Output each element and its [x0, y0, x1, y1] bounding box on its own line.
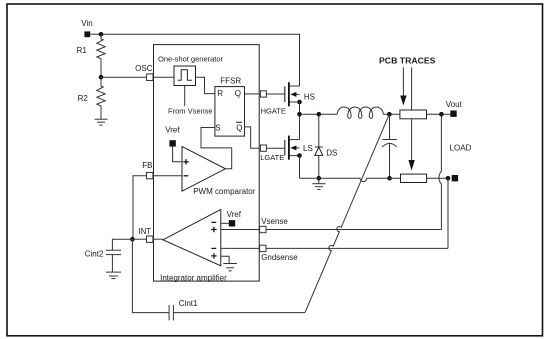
op-amp integrator amplifier [163, 209, 221, 265]
junction Cout/ground rail [387, 176, 392, 181]
wire HS source to LS drain [299, 102, 301, 140]
pin Gndsense [260, 245, 266, 251]
wire INT to Cint2 [112, 239, 132, 250]
wire HGATE to HS gate [266, 93, 284, 95]
wire HS drain to Vin rail [299, 34, 302, 86]
ground integrator [223, 264, 237, 271]
svg-text:R2: R2 [78, 94, 89, 103]
minus sign integrator bottom [211, 247, 216, 249]
capacitor Cout [382, 114, 397, 178]
svg-text:R: R [217, 89, 223, 98]
wire OSC to one-shot [153, 76, 174, 78]
ground power rail [312, 178, 325, 189]
pin OSC [147, 74, 153, 81]
ground Cint2 [106, 272, 121, 279]
svg-text:PCB TRACES: PCB TRACES [379, 55, 436, 65]
plus sign integrator bottom [211, 253, 216, 258]
transistor Q LS [285, 136, 300, 160]
junction LS source/body [297, 153, 302, 158]
wire OSC [101, 76, 146, 78]
diode DS [315, 114, 323, 178]
svg-text:Q: Q [236, 123, 242, 132]
junction Vin/R1 [99, 32, 104, 37]
resistor R2 [97, 77, 105, 119]
svg-text:FFSR: FFSR [220, 77, 241, 86]
arrow PCB trace bottom [408, 67, 414, 170]
minus sign integrator top [211, 221, 216, 223]
terminal Vref integrator [229, 220, 235, 226]
wire ground rail with hop [300, 178, 401, 181]
terminal Vout [450, 111, 456, 117]
wire gnd sense drop [447, 178, 449, 248]
svg-text:Vin: Vin [81, 19, 92, 28]
pin LGATE [260, 145, 266, 151]
wire Gndsense [221, 247, 448, 249]
wire INT junction to pin [132, 238, 146, 240]
pin Vsense [260, 226, 266, 232]
svg-text:INT: INT [138, 227, 151, 236]
terminal Vin [84, 31, 90, 37]
plus sign PWM [183, 159, 188, 164]
wire diagonal feedback with hops [305, 114, 389, 312]
wire Qbar to LGATE [245, 127, 260, 148]
wire integrator plus to ground [221, 256, 229, 263]
svg-text:LOAD: LOAD [450, 143, 472, 152]
wire LGATE to LS gate [266, 147, 284, 149]
wire Cint1 to diagonal [173, 312, 305, 314]
resistor PCB trace top [400, 110, 427, 119]
capacitor Cint2 [106, 250, 121, 272]
wire Vref to PWM plus [173, 147, 182, 162]
svg-text:Cint2: Cint2 [85, 250, 104, 259]
svg-text:PWM comparator: PWM comparator [193, 187, 256, 196]
svg-text:Cint1: Cint1 [179, 299, 198, 308]
svg-text:DS: DS [326, 149, 337, 158]
junction output node [387, 112, 392, 117]
resistor PCB trace bottom [401, 174, 427, 182]
svg-text:S: S [215, 123, 220, 132]
wire one-shot to R input [196, 77, 215, 93]
wire SW node [300, 113, 338, 115]
pin FB [147, 172, 153, 178]
wire L to output node [383, 113, 400, 115]
junction HS source/body [297, 100, 302, 105]
wire Q to HGATE [245, 93, 260, 95]
svg-text:One-shot generator: One-shot generator [158, 54, 224, 63]
junction R1/R2/OSC [99, 75, 104, 80]
svg-text:Vref: Vref [165, 126, 180, 135]
overbar Qbar [236, 121, 242, 123]
wire FB to INT junction [133, 176, 147, 239]
op-amp PWM comparator [182, 146, 225, 191]
pulse symbol [178, 70, 192, 81]
wire From Vsense stub [184, 86, 186, 107]
pin INT [147, 236, 153, 242]
ground R2 [95, 119, 108, 125]
svg-text:HS: HS [304, 92, 315, 101]
arrow PCB trace top [400, 67, 406, 105]
svg-text:OSC: OSC [135, 64, 153, 73]
wire Vin top rail [90, 33, 300, 35]
inductor L [337, 107, 383, 118]
resistor R1 [97, 34, 105, 77]
junction INT node [130, 237, 135, 242]
wire bottom box to load terminal [427, 177, 448, 179]
junction Vout sense tap [439, 112, 444, 117]
svg-text:LS: LS [303, 144, 313, 153]
svg-text:Vsense: Vsense [261, 217, 288, 226]
wire INT to Cint1 [132, 239, 169, 312]
junction DS/ground rail [317, 176, 322, 181]
svg-text:FB: FB [142, 161, 152, 170]
svg-text:From Vsense: From Vsense [168, 107, 213, 116]
wire PWM output to S [201, 128, 232, 169]
pin HGATE [260, 91, 266, 97]
svg-text:Gndsense: Gndsense [261, 253, 298, 262]
svg-text:Vref: Vref [227, 210, 242, 219]
wire Vsense [221, 229, 442, 231]
capacitor Cint1 [169, 305, 173, 320]
svg-text:R1: R1 [77, 46, 88, 55]
wire top box to Vout [427, 113, 451, 115]
wire Vout sense drop with hop [439, 114, 441, 229]
junction ground sense tap [446, 176, 451, 181]
svg-text:Vout: Vout [446, 100, 463, 109]
wire FB to PWM minus [153, 175, 182, 177]
terminal Vref PWM [169, 140, 175, 146]
svg-text:Q: Q [235, 89, 241, 98]
minus sign PWM [184, 175, 189, 177]
wire Vref integrator [221, 222, 229, 224]
terminal load return [452, 175, 458, 181]
svg-text:LGATE: LGATE [260, 153, 284, 162]
IC block outline [154, 45, 260, 282]
svg-text:HGATE: HGATE [261, 107, 286, 116]
flip-flop FFSR box [215, 87, 245, 137]
one-shot generator box [174, 66, 196, 86]
wire LS source to ground rail [299, 156, 301, 179]
plus sign integrator top [211, 227, 216, 232]
junction SW node [297, 112, 302, 117]
svg-text:Integrator amplifier: Integrator amplifier [160, 273, 227, 282]
junction DS branch [317, 112, 322, 117]
wire INT pin to integrator [153, 238, 163, 240]
transistor Q HS [285, 82, 300, 106]
